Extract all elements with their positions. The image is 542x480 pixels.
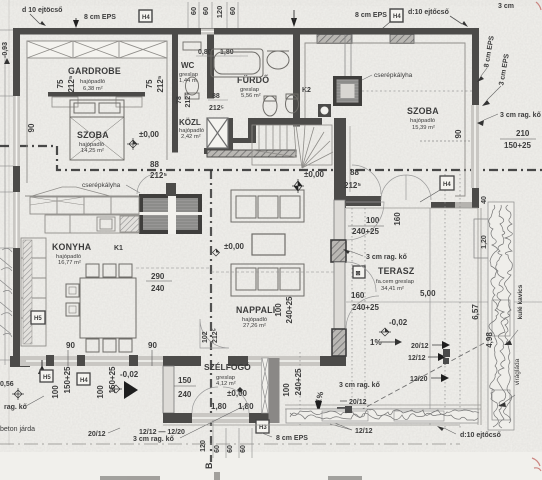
svg-text:20/12: 20/12 [349, 399, 367, 406]
svg-text:90: 90 [148, 341, 157, 350]
wall bottom main with windows [20, 355, 346, 366]
svg-text:120: 120 [200, 440, 207, 452]
dim 75/212 right pair [145, 75, 165, 92]
dim 75/212 left pair [56, 75, 76, 92]
svg-text:3 cm rag. kő: 3 cm rag. kő [133, 436, 174, 443]
svg-text:14,25 m²: 14,25 m² [81, 148, 104, 154]
svg-text:60: 60 [201, 7, 210, 15]
svg-text:60: 60 [240, 445, 247, 453]
wire: property dash line bottom [0, 443, 460, 445]
svg-text:4,98: 4,98 [485, 332, 494, 348]
wall top [13, 28, 479, 35]
svg-text:5,00: 5,00 [420, 289, 436, 298]
svg-text:60: 60 [228, 7, 237, 15]
svg-text:240: 240 [178, 390, 192, 399]
svg-text:cserépkályha: cserépkályha [82, 182, 121, 189]
label cserepkalyha right [362, 72, 413, 80]
svg-text:virágláda: virágláda [514, 358, 521, 385]
icon box terasz [353, 266, 365, 278]
dim 160/240+25 terasz door [346, 291, 542, 312]
svg-text:75: 75 [56, 79, 65, 88]
icon H4 box szoba-right [420, 176, 454, 202]
label 3cm rag ko bottom [133, 404, 248, 443]
svg-text:100: 100 [366, 216, 380, 225]
svg-text:H4: H4 [393, 14, 401, 20]
wall stair north [248, 118, 322, 142]
wall bottom-left corner [10, 356, 30, 367]
wall szelfogo right hatched [262, 358, 280, 423]
svg-text:240+25: 240+25 [352, 303, 379, 312]
window top wall wc [201, 29, 214, 35]
svg-text:150+25: 150+25 [504, 141, 531, 150]
slope 1% rotated szelfogo side [314, 391, 326, 413]
wall right with window [431, 28, 479, 208]
svg-text:H5: H5 [43, 375, 51, 381]
dim 88/212 nappali door top [344, 165, 381, 194]
label 3cm EPS right rot [482, 53, 511, 106]
label 20/12 right [411, 341, 450, 350]
svg-text:8 cm EPS: 8 cm EPS [355, 12, 387, 19]
furdo basin [267, 51, 289, 69]
svg-text:160: 160 [393, 212, 402, 226]
svg-text:75: 75 [145, 79, 154, 88]
wall nappali/stair east [334, 118, 381, 208]
icon H box konyha wall [31, 311, 45, 324]
label 8cm EPS top-mid [291, 10, 387, 27]
svg-text:±0,00: ±0,00 [139, 130, 160, 139]
svg-text:2,42 m²: 2,42 m² [181, 134, 201, 140]
svg-text:GARDROBE: GARDROBE [68, 66, 121, 76]
label kule kavics rot [504, 284, 524, 345]
svg-text:90: 90 [27, 123, 36, 132]
svg-text:H5: H5 [34, 316, 42, 322]
door arc szoba-right south double [381, 175, 431, 200]
svg-text:3 cm: 3 cm [498, 3, 514, 10]
bed [70, 100, 124, 160]
svg-text:kulé kavics: kulé kavics [517, 284, 524, 319]
dim 100/150+25 bottom-left pair2 [96, 366, 117, 399]
svg-text:212⁵: 212⁵ [150, 171, 167, 180]
dim 90 left [27, 123, 36, 132]
svg-text:210: 210 [516, 129, 530, 138]
svg-text:1,80: 1,80 [238, 402, 254, 411]
svg-text:60: 60 [227, 445, 234, 453]
dim 90 szoba-right window [454, 129, 463, 138]
svg-text:212⁵: 212⁵ [212, 328, 219, 343]
svg-text:20/12: 20/12 [88, 431, 106, 438]
wall gardrobe/wc partition [172, 35, 178, 153]
icon H4 box2 [77, 373, 90, 385]
svg-text:100: 100 [96, 385, 105, 399]
right flower box 1 [474, 219, 513, 258]
svg-text:90: 90 [454, 129, 463, 138]
svg-text:H4: H4 [443, 182, 451, 188]
wall kozl east [204, 118, 256, 154]
svg-text:B: B [204, 462, 214, 469]
icon H4 box top [376, 9, 403, 34]
svg-text:150+25: 150+25 [108, 366, 117, 393]
svg-text:150+25: 150+25 [63, 366, 72, 393]
dim rot 160 nappali-terasz [393, 212, 402, 226]
svg-text:78: 78 [176, 96, 183, 104]
svg-text:8 cm EPS: 8 cm EPS [276, 435, 308, 442]
left dim chain line [0, 30, 13, 365]
svg-text:±0,00: ±0,00 [304, 170, 325, 179]
dim 4,98 rot [485, 332, 494, 348]
wire: section line B vertical [210, 170, 212, 462]
svg-text:40: 40 [481, 196, 488, 204]
icon H5 box [40, 370, 53, 382]
label viraglada rot [498, 358, 521, 407]
dim 150/240 szelfogo [174, 376, 196, 399]
stove cserepkalyha szoba-right [333, 35, 472, 107]
svg-text:240+25: 240+25 [285, 296, 294, 323]
svg-text:150: 150 [178, 376, 192, 385]
wall wc/furdo partition [207, 35, 214, 99]
label K2 [302, 87, 311, 94]
door arcs nappali-terasz [346, 202, 384, 329]
kozl shower x-box [207, 118, 228, 148]
svg-text:beton járda: beton járda [0, 426, 35, 433]
label 8cm EPS bottom [262, 433, 308, 442]
stove cserepkalyha szoba (K1) [139, 183, 202, 234]
label 12/12 12/20 [139, 429, 185, 436]
dim rot 100/240+25 szelfogo east [282, 368, 303, 397]
text terasz [376, 266, 415, 292]
label 3cm ragko terasz top [343, 249, 407, 261]
text konyha [52, 242, 92, 266]
wall furdo/szoba partition [293, 35, 300, 127]
icon box top-mid-left [139, 10, 152, 22]
red marks scan [532, 2, 541, 471]
svg-text:240: 240 [151, 284, 165, 293]
elev szelfogo [227, 387, 248, 398]
slope 1% arrow [370, 338, 402, 347]
gardrobe wardrobe x-hatch [27, 41, 167, 58]
dining table [66, 264, 136, 352]
svg-text:3 cm rag. kő: 3 cm rag. kő [339, 382, 380, 389]
svg-text:±0,00: ±0,00 [227, 389, 248, 398]
text wc room [179, 61, 198, 84]
szelfogo entry door arcs [192, 387, 249, 413]
svg-text:rag. kő: rag. kő [4, 404, 27, 411]
label cserepkalyha szoba [82, 182, 140, 193]
svg-text:1%: 1% [370, 338, 382, 347]
dim -0.93 far left [2, 42, 10, 64]
label 20/12 left [88, 428, 120, 438]
text szoba-right [407, 106, 439, 131]
svg-text:20/12: 20/12 [411, 343, 429, 350]
label B section [204, 462, 214, 469]
ramp arrow szelfogo [110, 370, 139, 399]
svg-text:1,20: 1,20 [481, 235, 488, 249]
svg-text:88: 88 [350, 168, 359, 177]
svg-text:100: 100 [274, 303, 283, 317]
terasz floor edge lines [163, 208, 481, 425]
svg-text:12/12: 12/12 [355, 428, 373, 435]
wall szelfogo left [163, 366, 174, 413]
furdo tub [211, 49, 263, 77]
svg-text:fa.cem greslap: fa.cem greslap [376, 279, 414, 285]
furdo toilet K2 [286, 94, 299, 113]
elev marker szoba [127, 130, 160, 150]
wall szelfogo bottom [163, 413, 277, 423]
dim 88/212 kozl door [208, 93, 228, 112]
dim 5,00 [420, 289, 436, 298]
right planter strip [488, 202, 514, 430]
leader 12/12 bottom [330, 421, 352, 430]
furdo bidet [263, 96, 277, 116]
svg-text:0,80: 0,80 [198, 49, 212, 56]
svg-text:100: 100 [282, 383, 291, 397]
text szelfogo [204, 361, 251, 387]
label 8cm EPS top-left [73, 14, 116, 28]
svg-text:4,12 m²: 4,12 m² [216, 381, 236, 387]
svg-text:212⁵: 212⁵ [344, 181, 361, 190]
nappali coffee table [252, 234, 285, 255]
dim 90 bottom windows [66, 341, 157, 366]
svg-text:6,57: 6,57 [471, 304, 480, 320]
svg-text:1,80: 1,80 [211, 402, 227, 411]
dim 100/240+25 stair-terasz [348, 216, 384, 236]
nappali sofa 2 [231, 264, 304, 296]
svg-text:TERASZ: TERASZ [378, 266, 415, 276]
text szoba-left [77, 130, 109, 154]
svg-text:KONYHA: KONYHA [52, 242, 92, 252]
svg-text:120: 120 [215, 6, 224, 19]
svg-text:SZOBA: SZOBA [77, 130, 109, 140]
bottom dim chain B [213, 420, 252, 458]
svg-text:-0,93: -0,93 [2, 42, 9, 58]
svg-text:3 cm rag. kő: 3 cm rag. kő [500, 112, 541, 119]
nappali dashed line [211, 271, 334, 273]
stairs [252, 125, 333, 168]
svg-text:12/12 — 12/20: 12/12 — 12/20 [139, 429, 185, 436]
svg-text:212⁵: 212⁵ [156, 75, 165, 92]
dim 0,56 [0, 381, 24, 400]
label d10 ejtocso top-left [22, 7, 62, 26]
svg-text:KÖZL: KÖZL [179, 118, 201, 127]
node top dim chain [188, 2, 238, 30]
wall terasz/nappali glass and pillars [331, 200, 346, 356]
svg-text:±0,00: ±0,00 [224, 242, 245, 251]
konyha counter top row [30, 197, 139, 214]
label 12/12 bottom [330, 424, 373, 435]
svg-text:15,39 m²: 15,39 m² [412, 125, 435, 131]
door szelfogo-nappali [200, 319, 229, 348]
icon H3 box bottom [256, 420, 269, 433]
wall left with windows [13, 28, 20, 358]
svg-text:H3: H3 [259, 425, 267, 431]
elev nappali 0,00 [213, 242, 245, 256]
dim 78/212 wc door [176, 93, 192, 108]
svg-text:H4: H4 [80, 378, 88, 384]
bottom planter strip [286, 409, 479, 423]
svg-text:290: 290 [151, 272, 165, 281]
svg-text:H4: H4 [142, 15, 150, 21]
svg-text:FÜRDŐ: FÜRDŐ [237, 74, 269, 85]
svg-text:16,77 m²: 16,77 m² [58, 260, 81, 266]
svg-text:90: 90 [66, 341, 75, 350]
wall stair south hatched [207, 150, 296, 157]
slope diagonal to drain [346, 342, 486, 418]
svg-text:12/12: 12/12 [408, 355, 426, 362]
nappali sofa 1 [231, 190, 304, 222]
svg-text:3 cm rag. kő: 3 cm rag. kő [366, 254, 407, 261]
svg-text:34,41 m²: 34,41 m² [381, 286, 404, 292]
svg-text:212⁵: 212⁵ [185, 93, 192, 108]
eps pointer bottom wall [38, 360, 46, 374]
dim 6,57 rot [471, 304, 480, 320]
label 20/12 terasz [337, 399, 367, 413]
label beton jarda [0, 426, 35, 433]
dim 100/150+25 bottom-left pair1 [51, 366, 72, 399]
svg-text:d 10 ejtöcső: d 10 ejtöcső [22, 7, 62, 14]
label 12/12 right [408, 353, 446, 362]
svg-text:K2: K2 [302, 87, 311, 94]
wall pillar hatched top 2 [390, 35, 414, 44]
elev stair 0,00 [304, 170, 325, 179]
szoba-left room inner outline [25, 41, 167, 196]
label 3cm top-right corner [498, 3, 514, 10]
svg-text:⊠: ⊠ [356, 271, 361, 277]
wall pillar hatched top 1 [317, 35, 352, 44]
svg-text:212⁵: 212⁵ [67, 75, 76, 92]
dotted line szoba window [420, 140, 470, 142]
label 8cm EPS right rot [477, 35, 496, 82]
label 3cm ragko right [477, 112, 541, 126]
svg-text:60: 60 [189, 7, 198, 15]
text kozl [179, 118, 204, 140]
svg-text:hajópadló: hajópadló [80, 79, 105, 85]
label 12/20 right [410, 374, 449, 383]
furdo dims 0,80 1,80 [196, 49, 248, 56]
svg-text:SZÉLFOGÓ: SZÉLFOGÓ [204, 361, 251, 372]
svg-text:-0,02: -0,02 [120, 370, 139, 379]
label K1 [114, 245, 123, 252]
svg-text:160: 160 [351, 291, 365, 300]
svg-text:hajópadló: hajópadló [410, 118, 435, 124]
svg-text:d:10 ejtőcső: d:10 ejtőcső [408, 9, 449, 16]
svg-text:8 cm EPS: 8 cm EPS [84, 14, 116, 21]
label d10 ejtocso top-right [408, 9, 468, 27]
svg-text:d:10 ejtőcső: d:10 ejtőcső [460, 432, 501, 439]
terasz posts on line [345, 349, 450, 413]
svg-text:102: 102 [202, 331, 209, 343]
svg-text:0,56: 0,56 [0, 381, 14, 388]
svg-text:5,56 m²: 5,56 m² [241, 93, 261, 99]
compass mark nappali [292, 179, 304, 193]
szoba-right inner outline [305, 43, 465, 196]
svg-text:NAPPALI: NAPPALI [236, 305, 275, 315]
svg-text:88: 88 [150, 160, 159, 169]
svg-text:240+25: 240+25 [294, 368, 303, 395]
svg-text:212⁵: 212⁵ [209, 105, 224, 112]
svg-text:WC: WC [181, 61, 195, 70]
left garden squiggles [0, 248, 12, 337]
dim 210/150+25 right [500, 129, 536, 150]
label rag ko left [4, 396, 44, 411]
svg-text:6,38 m²: 6,38 m² [83, 86, 103, 92]
svg-text:100: 100 [51, 385, 60, 399]
dim 1,80 pair [211, 402, 254, 411]
svg-text:88: 88 [212, 93, 220, 100]
stair washbasin box [318, 104, 331, 117]
text gardrobe [68, 66, 121, 92]
text nappali [236, 305, 275, 329]
elev terasz -0,02 [379, 318, 408, 336]
label d10 ejtocso bottom [437, 426, 501, 439]
svg-text:27,26 m²: 27,26 m² [243, 323, 266, 329]
wire: section line A horizontal [0, 146, 542, 170]
dim 40 rot [481, 196, 488, 204]
konyha left counter [21, 238, 46, 346]
bottom faint next-sheet marks [100, 472, 362, 480]
text furdo [237, 74, 269, 99]
svg-text:K1: K1 [114, 245, 123, 252]
dim 290/240 konyha [136, 268, 211, 293]
terasz dotted guides [300, 170, 460, 430]
svg-text:SZOBA: SZOBA [407, 106, 439, 116]
wc toilet [183, 42, 201, 99]
svg-text:cserépkályha: cserépkályha [374, 72, 413, 79]
svg-text:-0,02: -0,02 [389, 318, 408, 327]
label 3cm ragko mid [339, 382, 380, 389]
konyha counter row2 sink [45, 215, 139, 233]
svg-text:60: 60 [214, 445, 221, 453]
dim 88/212 szoba door [137, 160, 167, 194]
gardrobe closet bar [48, 92, 145, 107]
dim rot 160/240+25 nappali window [274, 296, 294, 323]
svg-text:12/20: 12/20 [410, 376, 428, 383]
